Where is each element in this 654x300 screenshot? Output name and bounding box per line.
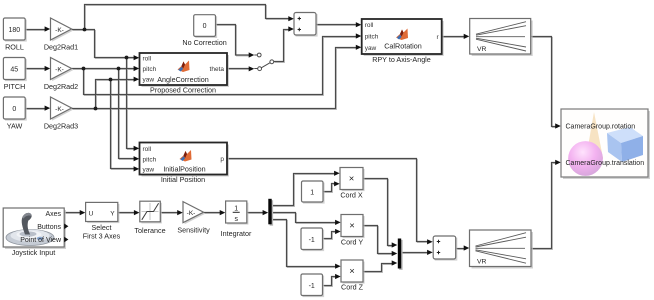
- svg-text:Cord Z: Cord Z: [341, 283, 364, 292]
- manual switch: [254, 53, 273, 71]
- svg-text:No Correction: No Correction: [182, 38, 226, 47]
- svg-text:Buttons: Buttons: [37, 224, 61, 231]
- wire VR2 out up to CameraGroup translation: [531, 163, 556, 249]
- wire yaw branch up to AngleCorrection yaw: [96, 80, 136, 109]
- wire theta to switch lower: [227, 68, 249, 70]
- wire roll branch down to AngleCorrection roll: [95, 30, 136, 58]
- svg-text:CalRotation: CalRotation: [384, 42, 422, 51]
- svg-text:0: 0: [12, 106, 16, 113]
- wire ROLL to Deg2Rad1: [25, 29, 46, 31]
- MATLAB function block InitialPosition: [140, 143, 230, 185]
- svg-text:First 3 Axes: First 3 Axes: [83, 231, 121, 240]
- wire roll branch to InitialPosition roll: [127, 58, 136, 149]
- wire Demux out2 to Cord Y: [272, 213, 337, 223]
- svg-text:yaw: yaw: [143, 77, 155, 84]
- svg-text:theta: theta: [210, 66, 225, 73]
- svg-text:ROLL: ROLL: [5, 43, 24, 52]
- svg-text:Point of View: Point of View: [20, 237, 62, 244]
- wire Sum2 out to VR2: [456, 248, 465, 250]
- matlab logo AngleCorrection: [178, 61, 190, 73]
- VR placeholder block CameraGroup: [561, 109, 650, 179]
- svg-text:Deg2Rad3: Deg2Rad3: [44, 122, 78, 131]
- svg-text:1: 1: [310, 190, 314, 197]
- wire Mux out to Sum2: [401, 252, 428, 254]
- svg-text:U: U: [89, 211, 94, 218]
- wire Deg2Rad1 out to junction: [72, 29, 95, 31]
- svg-text:×: ×: [349, 220, 355, 231]
- selector block Select First 3 Axes: [83, 202, 121, 240]
- svg-text:Deg2Rad2: Deg2Rad2: [44, 82, 78, 91]
- wire Const-1a to Cord Y lower: [323, 232, 336, 239]
- svg-text:roll: roll: [143, 55, 152, 62]
- demux: [268, 199, 273, 226]
- svg-text:Y: Y: [110, 211, 115, 218]
- wire Demux out1 to Cord X: [272, 174, 336, 206]
- svg-text:Integrator: Integrator: [221, 229, 252, 238]
- wire Integrator to Demux: [247, 212, 264, 214]
- svg-text:RPY to Axis-Angle: RPY to Axis-Angle: [372, 55, 431, 64]
- svg-text:Proposed Correction: Proposed Correction: [150, 86, 216, 95]
- wire InitialPosition p to Sum2: [227, 159, 428, 242]
- wire No Correction to switch upper: [216, 25, 249, 56]
- sum block Sum2: [433, 236, 457, 261]
- wire Deg2Rad2 out to AngleCorrection pitch: [72, 68, 135, 70]
- sum block Sum1: [294, 13, 318, 37]
- svg-text:roll: roll: [143, 146, 152, 153]
- wire YAW to Deg2Rad3: [25, 108, 46, 110]
- svg-text:1: 1: [234, 206, 238, 213]
- wire Cord Y out to Mux in2: [363, 226, 393, 254]
- MATLAB function block CalRotation: [362, 19, 444, 64]
- product Cord Y: [341, 215, 365, 247]
- wire Sensitivity to Integrator: [204, 212, 221, 214]
- sphere: [568, 141, 603, 176]
- svg-text:×: ×: [349, 266, 355, 277]
- svg-text:CameraGroup.rotation: CameraGroup.rotation: [566, 124, 636, 131]
- svg-text:InitialPosition: InitialPosition: [163, 165, 205, 174]
- gain Deg2Rad3: [44, 97, 78, 131]
- svg-text:×: ×: [349, 173, 355, 184]
- svg-text:Cord X: Cord X: [340, 190, 363, 199]
- arrowheads: [45, 16, 561, 279]
- mux: [398, 239, 403, 270]
- wire switch out to Sum1 lower: [274, 30, 290, 62]
- dead zone block Tolerance: [134, 201, 165, 235]
- wire Cord X out to Mux in1: [363, 179, 393, 246]
- wire Cord Z out to Mux in3: [363, 264, 393, 272]
- svg-text:yaw: yaw: [143, 167, 155, 174]
- svg-text:-K-: -K-: [187, 210, 196, 217]
- gain Deg2Rad1: [44, 18, 78, 52]
- svg-text:pitch: pitch: [143, 156, 157, 163]
- svg-text:-K-: -K-: [55, 27, 64, 34]
- svg-text:180: 180: [8, 27, 20, 34]
- svg-text:YAW: YAW: [7, 122, 23, 131]
- svg-text:Tolerance: Tolerance: [134, 226, 165, 235]
- svg-text:pitch: pitch: [365, 34, 379, 41]
- svg-text:PITCH: PITCH: [4, 82, 26, 91]
- wire Demux out3 to Cord Z: [272, 220, 337, 267]
- wire Tolerance to Sensitivity: [160, 212, 178, 214]
- constant PITCH 45: [3, 58, 26, 92]
- svg-text:Cord Y: Cord Y: [341, 237, 363, 246]
- constant -1 a: [301, 228, 324, 251]
- product Cord Z: [341, 260, 365, 292]
- wire roll branch up to Sum1: [85, 5, 290, 30]
- constant 1: [302, 181, 325, 204]
- svg-text:s: s: [234, 216, 238, 223]
- wire Select to Tolerance: [118, 212, 135, 214]
- joystick icon: [6, 213, 54, 246]
- wire Const1 to Cord X lower: [323, 184, 335, 192]
- svg-text:-1: -1: [309, 283, 315, 290]
- svg-text:-K-: -K-: [55, 66, 64, 73]
- constant YAW 0: [3, 97, 26, 131]
- svg-text:VR: VR: [477, 46, 487, 53]
- wire Const-1b to Cord Z lower: [323, 277, 336, 286]
- wire Sum1 out to CalRotation roll: [316, 24, 357, 26]
- svg-text:Axes: Axes: [45, 211, 61, 218]
- svg-text:Sensitivity: Sensitivity: [177, 226, 210, 235]
- matlab logo InitialPosition: [180, 150, 192, 162]
- wire pitch branch to InitialPosition pitch: [119, 69, 136, 159]
- cube: [607, 127, 643, 143]
- svg-text:pitch: pitch: [143, 66, 157, 73]
- svg-text:Joystick Input: Joystick Input: [12, 248, 56, 257]
- svg-text:CameraGroup.translation: CameraGroup.translation: [566, 160, 645, 167]
- svg-text:VR: VR: [477, 259, 487, 266]
- matlab logo CalRotation: [396, 29, 408, 41]
- constant -1 b: [301, 274, 324, 297]
- wire shadows: [26, 6, 557, 287]
- svg-text:-1: -1: [309, 237, 315, 244]
- svg-text:-K-: -K-: [55, 106, 64, 113]
- constant ROLL 180: [3, 18, 26, 52]
- cone: [586, 112, 603, 158]
- wire PITCH to Deg2Rad2: [25, 68, 46, 70]
- svg-text:p: p: [220, 156, 224, 163]
- VR block VR2: [470, 230, 534, 269]
- MATLAB function block AngleCorrection: [140, 53, 230, 95]
- svg-text:Deg2Rad1: Deg2Rad1: [44, 43, 78, 52]
- integrator block: [221, 201, 252, 238]
- svg-text:AngleCorrection: AngleCorrection: [157, 75, 209, 84]
- wire Deg2Rad3 out long run to CalRotation yaw: [72, 48, 357, 109]
- wire pitch long run to CalRotation pitch: [84, 37, 358, 95]
- svg-text:roll: roll: [365, 22, 374, 29]
- wire CalRotation r to VR1: [442, 36, 465, 38]
- product Cord X: [340, 168, 365, 200]
- svg-text:yaw: yaw: [365, 45, 377, 52]
- svg-text:Initial Position: Initial Position: [161, 175, 205, 184]
- wire Joystick Axes to Select: [64, 212, 81, 214]
- junction dots: [82, 28, 129, 111]
- gain Sensitivity: [177, 202, 210, 235]
- gain Deg2Rad2: [44, 58, 78, 92]
- svg-text:0: 0: [203, 23, 207, 30]
- wire yaw branch to InitialPosition yaw: [111, 80, 136, 169]
- wire VR1 out down to CameraGroup rotation: [531, 37, 557, 127]
- unconnected port Point of View: [64, 237, 68, 243]
- joystick input block: [3, 208, 68, 257]
- VR block VR1: [470, 19, 533, 57]
- constant No Correction 0: [182, 15, 226, 47]
- svg-text:45: 45: [10, 67, 18, 74]
- unconnected port Buttons: [64, 224, 68, 230]
